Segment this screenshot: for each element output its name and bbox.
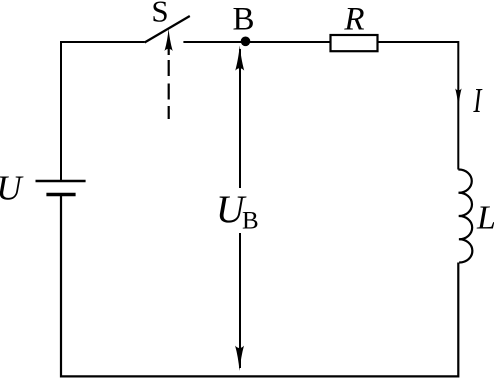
node B dot [241, 37, 251, 47]
svg-text:S: S [151, 0, 168, 29]
switch S blade [145, 16, 190, 43]
resistor R box [331, 35, 378, 51]
current label I [473, 81, 484, 120]
switch dashed-arrow solid stub [168, 46, 170, 55]
switch dashed-arrow dash 1 [168, 60, 170, 76]
switch dashed-arrow dash 3 [168, 106, 170, 119]
svg-text:R: R [343, 1, 364, 37]
wire: left wire below battery, bottom wire, right wire up to inductor bottom [61, 196, 458, 377]
svg-text:I: I [473, 81, 484, 120]
U_B arrow bottom head (pointing down) [235, 346, 244, 371]
switch dashed-arrow dash 2 [168, 84, 170, 100]
svg-text:U: U [0, 169, 24, 208]
battery U: short thick plate [46, 193, 75, 197]
wire: resistor to top-right corner, down to inductor top [378, 42, 459, 170]
battery U: long thin plate [36, 180, 86, 183]
U_B arrow upper line [239, 49, 241, 188]
switch dashed-arrow solid head [165, 29, 173, 51]
U_B arrow top head (pointing up) [235, 46, 244, 71]
wire: top-left segment and left wire down to battery top plate [61, 42, 145, 180]
inductor L coil (4 bumps) [458, 169, 472, 262]
U_B arrow lower line [239, 233, 241, 368]
current I arrowhead on right wire [455, 88, 462, 106]
svg-text:B: B [242, 207, 259, 234]
wire: top middle segment from switch to resistor [183, 41, 330, 43]
svg-text:L: L [476, 199, 494, 236]
svg-text:B: B [232, 1, 254, 37]
